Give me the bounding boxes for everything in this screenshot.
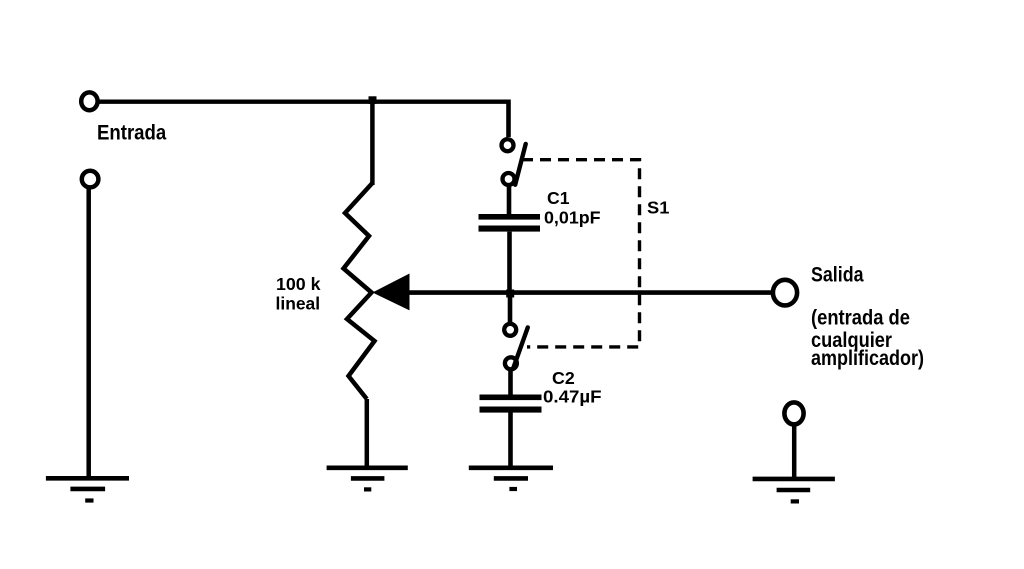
switch S1a contact top xyxy=(502,139,514,151)
output terminal J3 xyxy=(773,280,797,306)
wire S1a to C1 xyxy=(507,185,512,216)
switch S1 ganged dashed link xyxy=(522,160,640,347)
ground under C2 xyxy=(469,468,553,489)
svg-text:lineal: lineal xyxy=(276,294,321,314)
input terminal J1 xyxy=(81,92,97,110)
wire S1b to C2 xyxy=(508,369,513,397)
ground under potentiometer xyxy=(327,468,408,490)
capacitor C1 xyxy=(479,214,541,232)
svg-text:amplificador): amplificador) xyxy=(811,347,924,370)
svg-text:S1: S1 xyxy=(647,198,670,218)
svg-text:Salida: Salida xyxy=(811,263,864,286)
ground left xyxy=(46,478,129,500)
svg-text:Entrada: Entrada xyxy=(97,122,166,145)
capacitor C2 xyxy=(480,395,542,413)
wire J4 to ground xyxy=(792,423,797,477)
wire input to corner xyxy=(98,99,509,103)
wire C1 to junction xyxy=(507,232,512,294)
node junction wiper wire with C1/C2 branch xyxy=(506,290,514,298)
wire junction to switch S1b xyxy=(508,293,513,322)
ground right xyxy=(753,479,835,502)
switch S1a contact bottom xyxy=(503,173,515,185)
svg-text:100 k: 100 k xyxy=(276,274,321,294)
svg-text:(entrada de: (entrada de xyxy=(811,307,910,330)
wire wiper to output xyxy=(409,290,771,295)
resistor potentiometer 100k body xyxy=(344,183,375,399)
switch S1b lever xyxy=(513,327,528,369)
wire potentiometer bottom to ground xyxy=(365,399,370,468)
switch S1b contact bottom xyxy=(505,357,517,369)
svg-text:C1: C1 xyxy=(547,188,570,208)
input ground terminal J2 xyxy=(82,171,99,188)
svg-text:0.47µF: 0.47µF xyxy=(543,386,602,406)
wire corner down to switch S1a xyxy=(506,100,511,138)
potentiometer wiper arrow xyxy=(373,274,410,311)
wire J2 to ground xyxy=(86,188,91,477)
switch S1a lever xyxy=(515,144,526,185)
output ground terminal J4 xyxy=(784,402,803,424)
node junction at potentiometer top xyxy=(369,96,377,104)
svg-text:C2: C2 xyxy=(552,368,575,388)
wire C2 to ground xyxy=(508,413,513,469)
switch S1b contact top xyxy=(504,324,516,336)
wire down to potentiometer xyxy=(370,102,375,185)
svg-text:0,01pF: 0,01pF xyxy=(544,208,601,228)
